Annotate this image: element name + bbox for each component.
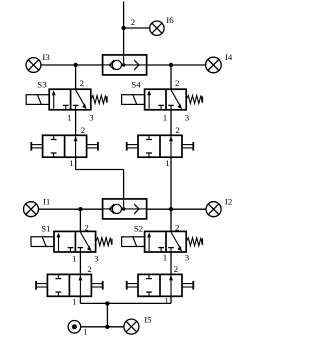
valve V3 (pilot 2/2, left) right pilot port (plugged)	[87, 142, 98, 151]
valve V5 (pilot 2/2, bottom left) body	[47, 274, 91, 296]
valve S1 manual actuator	[31, 237, 54, 247]
valve S3 manual actuator	[26, 95, 49, 105]
wire node B down to valve S4 port 2	[170, 65, 172, 89]
wire node E down to node F	[106, 303, 108, 326]
svg-text:1: 1	[165, 158, 169, 168]
valve V4 (pilot 2/2, right) right pilot port (plugged)	[182, 142, 193, 151]
svg-text:1: 1	[72, 296, 76, 306]
svg-text:1: 1	[163, 113, 167, 123]
wire valve S2 port 1 to pilot valve V6 port 2	[170, 252, 172, 274]
wire node J1 down to shuttle valve V2	[123, 28, 125, 55]
svg-text:I1: I1	[43, 196, 50, 206]
wire valve S3 port 1 to pilot valve V3 port 2	[75, 110, 77, 136]
svg-text:2: 2	[131, 17, 135, 27]
wire from top edge to node J1	[123, 2, 125, 29]
indicator lamp I1	[24, 202, 39, 217]
svg-text:3: 3	[94, 253, 99, 263]
wire node C down to valve S1 port 2	[79, 209, 81, 231]
valve S1 body	[54, 231, 96, 252]
svg-text:1: 1	[67, 113, 71, 123]
svg-text:2: 2	[175, 125, 179, 135]
svg-text:3: 3	[185, 113, 190, 123]
wire pilot valve V4 port 1 down to node D	[170, 157, 172, 209]
wire node F to lamp I5	[107, 326, 124, 328]
shuttle valve V2 (OR)	[103, 55, 147, 75]
node B	[169, 63, 173, 67]
wire pilot valve V6 port 1 down to supply rail	[170, 296, 172, 303]
wire shuttle valve V1 right port to node D	[147, 208, 171, 210]
wire pilot valve V3 port 1 down	[75, 157, 77, 169]
svg-text:S4: S4	[131, 79, 141, 89]
valve S3 body	[49, 89, 91, 110]
wire node D to lamp I2	[171, 208, 206, 210]
node C	[78, 207, 82, 211]
svg-text:I6: I6	[166, 15, 174, 25]
node J1 (output of shuttle valve V2)	[121, 26, 125, 30]
svg-text:3: 3	[89, 113, 94, 123]
svg-text:2: 2	[87, 264, 91, 274]
valve S3 return spring	[91, 96, 107, 104]
wire shuttle valve V2 right port to node B	[147, 64, 171, 66]
svg-text:S2: S2	[134, 223, 143, 233]
valve S4 body	[145, 89, 187, 110]
wire pilot valve V5 port 1 down to supply rail	[79, 296, 81, 303]
node A	[73, 63, 77, 67]
valve S2 body	[145, 231, 187, 252]
svg-text:1: 1	[69, 158, 73, 168]
valve V4 (pilot 2/2, right) left pilot port (plugged)	[127, 142, 138, 151]
valve V4 (pilot 2/2, right) body	[138, 135, 182, 157]
svg-text:2: 2	[174, 264, 178, 274]
valve S2 manual actuator	[122, 237, 145, 247]
shuttle valve V1 (OR)	[103, 199, 147, 219]
valve S1 return spring	[96, 238, 112, 246]
svg-text:2: 2	[175, 78, 179, 88]
wire elbow to shuttle valve V1 top	[76, 169, 124, 171]
valve V5 (pilot 2/2, bottom left) right pilot port (plugged)	[91, 281, 102, 290]
wire down to shuttle valve V1 output node	[123, 170, 125, 199]
node E on supply rail	[105, 301, 109, 305]
wire node A to shuttle valve V2 left port	[76, 64, 103, 66]
svg-text:I5: I5	[144, 314, 152, 324]
indicator lamp I5	[124, 319, 139, 334]
svg-text:S3: S3	[37, 79, 47, 89]
wire valve S1 port 1 to pilot valve V5 port 2	[79, 252, 81, 274]
node D	[169, 207, 173, 211]
svg-text:I2: I2	[225, 197, 232, 207]
svg-text:I4: I4	[225, 52, 233, 62]
svg-text:1: 1	[83, 327, 87, 337]
indicator lamp I4	[206, 57, 222, 73]
wire node A down to valve S3 port 2	[75, 65, 77, 89]
indicator lamp I6	[150, 21, 164, 35]
wire node C to shuttle valve V1 left port	[80, 208, 102, 210]
wire node B to lamp I4	[171, 64, 206, 66]
wire lamp I1 to node C	[39, 208, 81, 210]
wire node J1 to lamp I6	[124, 27, 150, 29]
indicator lamp I2	[206, 202, 221, 217]
svg-text:2: 2	[81, 125, 85, 135]
indicator lamp I3	[26, 58, 41, 73]
valve V5 (pilot 2/2, bottom left) left pilot port (plugged)	[36, 281, 47, 290]
wire valve S4 port 1 to pilot valve V4 port 2	[170, 110, 172, 136]
svg-text:I3: I3	[42, 52, 50, 62]
svg-text:2: 2	[80, 78, 84, 88]
valve S2 return spring	[186, 238, 202, 246]
valve V3 (pilot 2/2, left) left pilot port (plugged)	[31, 142, 42, 151]
compressed air source 1	[68, 321, 81, 334]
valve V6 (pilot 2/2, bottom right) left pilot port (plugged)	[127, 281, 138, 290]
node F at source	[105, 325, 109, 329]
valve S4 return spring	[186, 96, 202, 104]
wire lamp I3 to node A	[41, 64, 76, 66]
wire air source to node F	[81, 326, 108, 328]
valve V6 (pilot 2/2, bottom right) right pilot port (plugged)	[182, 281, 193, 290]
svg-text:3: 3	[185, 252, 190, 262]
supply rail wire	[80, 302, 171, 304]
svg-text:S1: S1	[41, 223, 50, 233]
wire node D down to valve S2 port 2	[170, 209, 172, 231]
valve V6 (pilot 2/2, bottom right) body	[138, 274, 182, 296]
svg-text:1: 1	[163, 252, 167, 262]
valve V3 (pilot 2/2, left) body	[43, 135, 87, 157]
valve S4 manual actuator	[122, 95, 145, 105]
svg-text:1: 1	[72, 253, 76, 263]
